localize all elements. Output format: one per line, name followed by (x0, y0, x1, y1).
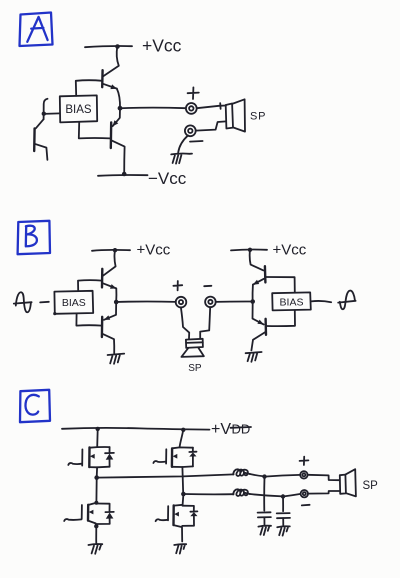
svg-text:+V: +V (211, 421, 231, 438)
svg-text:SP: SP (363, 480, 379, 492)
svg-text:−Vcc: −Vcc (148, 169, 187, 188)
svg-text:+Vcc: +Vcc (137, 242, 171, 259)
svg-text:BIAS: BIAS (65, 104, 92, 116)
svg-text:BIAS: BIAS (62, 297, 86, 309)
svg-text:SP: SP (250, 111, 266, 123)
svg-text:+Vcc: +Vcc (273, 242, 307, 259)
svg-text:+Vcc: +Vcc (142, 36, 182, 56)
svg-text:SP: SP (188, 363, 202, 374)
svg-text:BIAS: BIAS (280, 296, 304, 308)
svg-text:DD: DD (232, 422, 251, 437)
